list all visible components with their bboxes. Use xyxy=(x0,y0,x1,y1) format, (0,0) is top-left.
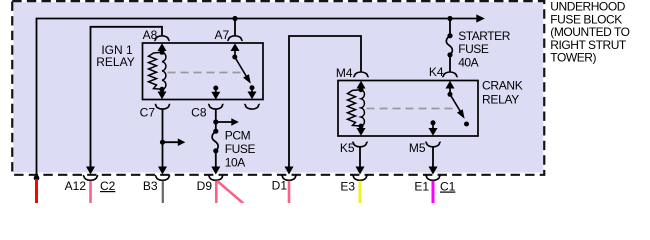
connector D9 half circle xyxy=(208,176,223,181)
svg-text:C1: C1 xyxy=(440,180,456,194)
wire: pink lead below D9 (diagonal branch) xyxy=(217,181,244,204)
wire: n-shaped feed from terminal D1 up and over to relay pin M4 xyxy=(289,36,361,169)
svg-text:K4: K4 xyxy=(429,65,444,79)
wire: pink lead below D9 (straight) xyxy=(215,181,218,203)
connector E1/C1 half circle xyxy=(425,176,440,181)
switch IGN 1: contact node xyxy=(250,85,255,90)
svg-text:E1: E1 xyxy=(414,180,429,194)
relay coil CRANK scallops (right) xyxy=(361,90,364,126)
pin M5 arrow out of relay xyxy=(432,123,434,130)
node: junction on bus to starter fuse xyxy=(447,16,452,21)
terminal arrow A12 xyxy=(86,167,95,175)
relay coil IGN 1 scallops (right) xyxy=(162,52,166,89)
pin (NO contact) arrow out of relay xyxy=(251,88,253,93)
terminal arrow E3 xyxy=(356,167,365,175)
pin C8 arrow out of relay xyxy=(215,88,217,93)
pin M4 arrow into relay xyxy=(357,81,366,89)
svg-text:M5: M5 xyxy=(409,141,426,155)
pin C7 arrow out of relay xyxy=(161,89,163,93)
dashed actuation link IGN 1 xyxy=(168,72,243,74)
connector B3 half circle xyxy=(155,176,170,181)
node: branch on C7 wire xyxy=(160,140,165,145)
wire: fuse to K4 xyxy=(449,55,451,72)
switch IGN 1: common node xyxy=(232,55,237,60)
node: junction at bottom of red lead xyxy=(34,175,40,181)
wire: yellow lead below E3 xyxy=(359,181,362,203)
svg-text:STARTER: STARTER xyxy=(458,29,511,43)
svg-text:10A: 10A xyxy=(225,156,245,170)
switch IGN 1 blade with arrowhead xyxy=(235,57,247,77)
pin C8: node inside relay xyxy=(213,86,218,91)
svg-text:FUSE: FUSE xyxy=(225,142,256,156)
terminal arrow B3 xyxy=(158,167,167,175)
wire: pink lead below A12 xyxy=(89,181,92,203)
svg-text:C7: C7 xyxy=(140,105,156,119)
connector A8 half circle xyxy=(154,36,169,41)
pin K5 arrow out of relay xyxy=(360,126,362,129)
svg-text:RELAY: RELAY xyxy=(96,55,134,69)
switch CRANK: contact node xyxy=(464,122,469,127)
connector C8 half circle xyxy=(208,104,223,109)
wire: C8 down to terminal D9 xyxy=(215,109,217,131)
pin M5: node xyxy=(431,120,436,125)
relay box IGN 1 xyxy=(143,43,264,100)
terminal arrow E1 xyxy=(429,167,438,175)
connector M5 half circle xyxy=(425,142,440,147)
wire: gray lead below B3 xyxy=(162,181,164,203)
terminal arrow D1 xyxy=(285,167,294,175)
wire: pink lead below D1 xyxy=(288,181,291,203)
svg-text:B3: B3 xyxy=(143,179,158,193)
svg-text:D1: D1 xyxy=(272,179,288,193)
terminal arrow D9 xyxy=(211,167,220,175)
connector D1 half circle xyxy=(281,176,296,181)
wire: L-shaped feed from terminal A12 up to relay pin A8 xyxy=(91,27,163,169)
dashed actuation link CRANK xyxy=(367,108,457,110)
relay coil CRANK: node bottom xyxy=(359,124,364,129)
svg-text:M4: M4 xyxy=(336,66,353,80)
pin A7 arrow into relay xyxy=(231,43,240,51)
svg-text:PCM: PCM xyxy=(225,129,251,143)
svg-text:A12: A12 xyxy=(65,179,87,193)
underhood fuse block dashed enclosure (fill) xyxy=(13,2,543,172)
wire: bus junction down to starter fuse xyxy=(449,19,451,36)
connector K5 half circle xyxy=(352,142,367,147)
connector E3 half circle xyxy=(352,176,367,181)
svg-text:TOWER): TOWER) xyxy=(550,51,596,65)
pin A8 arrow into relay xyxy=(158,43,167,51)
wire: branch arrow to the right (off-page) xyxy=(163,141,180,143)
connector M4 half circle xyxy=(353,72,368,77)
underhood fuse block dashed border xyxy=(12,1,544,175)
relay coil CRANK: node top xyxy=(359,87,364,92)
wire: branch arrow to the right (off-page) xyxy=(216,121,233,123)
wire: K5 down to terminal E3 xyxy=(359,147,361,169)
switch CRANK blade with arrowhead xyxy=(450,94,461,112)
pin K4 arrow into relay xyxy=(446,81,455,89)
relay coil IGN 1: node bottom xyxy=(160,87,165,92)
switch CRANK: common node xyxy=(448,92,453,97)
svg-text:CRANK: CRANK xyxy=(482,78,523,92)
svg-text:K5: K5 xyxy=(340,141,355,155)
svg-text:C8: C8 xyxy=(191,105,207,119)
svg-text:A8: A8 xyxy=(143,28,158,42)
svg-text:RELAY: RELAY xyxy=(482,92,519,106)
relay coil IGN 1 zigzag (left) xyxy=(149,52,163,89)
fuse STARTER FUSE 40A xyxy=(447,33,452,38)
relay box CRANK xyxy=(338,81,478,137)
connector at NO contact (unused) half circle xyxy=(244,104,259,109)
node: junction on bus to A7 xyxy=(232,16,237,21)
connector A7 half circle xyxy=(227,36,242,41)
wire: magenta lead below E1 xyxy=(432,181,435,203)
connector K4 half circle xyxy=(442,72,457,77)
wire: M5 down to terminal E1 xyxy=(432,147,434,169)
relay coil CRANK zigzag (left) xyxy=(348,90,362,126)
fuse PCM FUSE 10A xyxy=(213,129,218,134)
svg-text:E3: E3 xyxy=(340,180,355,194)
svg-text:FUSE: FUSE xyxy=(458,42,489,56)
svg-text:A7: A7 xyxy=(215,28,230,42)
svg-text:C2: C2 xyxy=(100,179,116,193)
wire: from bus junction down to relay pin A7 xyxy=(234,19,236,37)
connector A12/C2 half circle xyxy=(83,176,98,181)
connector C7 half circle xyxy=(155,104,170,109)
wire: red battery lead below fuse block xyxy=(35,179,38,203)
wire: main feed bus from A12/C2 red lead up and across to starter fuse, arrow right xyxy=(37,19,479,178)
node: branch on C8 wire xyxy=(213,119,218,124)
wire: C7 down to terminal B3 xyxy=(162,109,164,168)
relay coil IGN 1: node top xyxy=(160,50,165,55)
svg-text:D9: D9 xyxy=(197,179,213,193)
svg-text:40A: 40A xyxy=(458,56,478,70)
